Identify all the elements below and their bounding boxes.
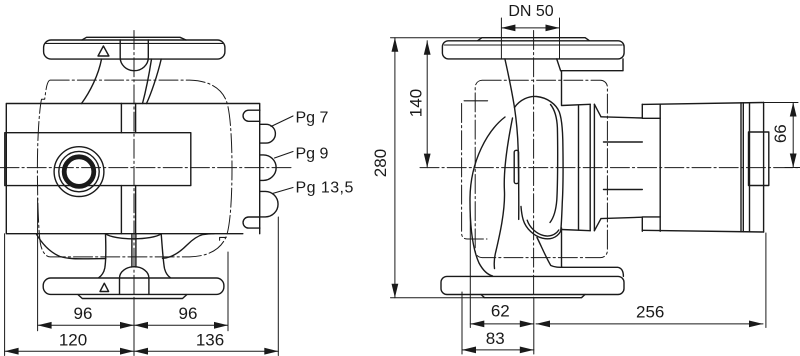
ext 280 bottom: [391, 297, 485, 299]
volute inner edge: [494, 118, 512, 269]
can inner lines: [604, 142, 643, 190]
centerline horizontal right view: [420, 167, 800, 169]
dim 136: [134, 350, 278, 352]
neck curve left: [82, 59, 102, 103]
svg-text:Pg 13,5: Pg 13,5: [296, 180, 354, 197]
ext pipe center bottom: [533, 298, 535, 354]
gland Pg13.5: [260, 191, 278, 217]
impeller dome outline: [515, 96, 564, 238]
dim 66: [792, 103, 794, 168]
svg-text:62: 62: [491, 302, 510, 321]
dim 256: [536, 323, 763, 325]
lug top: [642, 104, 660, 118]
body silhouette lower left: [36, 234, 106, 259]
gland tab top: [243, 110, 260, 121]
dim 96 right: [134, 324, 228, 326]
top flange: [44, 40, 225, 59]
stator top: [642, 103, 763, 105]
dim 140: [426, 41, 428, 168]
cable entry thick ring: [64, 157, 94, 187]
shaft slot: [132, 234, 136, 267]
stator left edge: [659, 104, 661, 231]
stator bottom: [642, 230, 763, 232]
top flange right view: [442, 41, 624, 59]
terminal box: [6, 104, 259, 234]
dim 280: [394, 38, 396, 298]
svg-text:Pg 7: Pg 7: [296, 110, 329, 127]
svg-text:120: 120: [59, 331, 87, 350]
ext 66 bottom tick: [785, 167, 800, 169]
ext line gland right: [277, 217, 279, 356]
pipe bore right edge: [559, 18, 561, 59]
cable entry circle outer: [54, 147, 104, 197]
can top: [601, 117, 642, 118]
stator right edge: [740, 103, 742, 232]
dim 96 left: [38, 324, 134, 326]
svg-text:140: 140: [407, 89, 426, 117]
bottom flange lip right view: [481, 295, 585, 298]
pipe bore left edge: [500, 18, 502, 59]
bottom shelf and corner: [563, 267, 624, 276]
squircle step below box: [220, 237, 227, 240]
bottom flange lip: [78, 295, 187, 299]
clamp ring v3: [593, 104, 595, 230]
chamfer bottom: [594, 219, 601, 231]
ext 66 top: [764, 102, 798, 104]
bevel slant to shelf: [537, 238, 563, 268]
body silhouette lower right: [163, 234, 215, 259]
pipe right edge below shelf: [561, 71, 563, 105]
stator housing hidden outline: [37, 80, 232, 257]
lug bottom: [642, 217, 660, 231]
shelf top: [561, 59, 623, 71]
leader Pg13.5: [273, 188, 294, 194]
chamfer top: [594, 104, 601, 117]
terminal box band: [5, 133, 191, 186]
centerline vertical right view: [533, 31, 535, 299]
svg-text:Pg 9: Pg 9: [296, 146, 329, 163]
terminal box hidden top edge: [464, 100, 488, 102]
pedestal right edge: [161, 234, 170, 278]
hidden stator box: [475, 80, 607, 257]
ext line stator right: [227, 252, 229, 331]
can bottom: [601, 217, 642, 218]
neck left edge / pump body left edge: [505, 59, 519, 220]
flow triangle bottom: [100, 283, 109, 291]
dim 62: [470, 323, 534, 325]
svg-text:256: 256: [636, 302, 664, 321]
dim DN50: [501, 27, 559, 29]
volute outer edge: [470, 117, 505, 276]
end cap inner line: [749, 103, 751, 232]
terminal box hidden left/bottom: [462, 104, 487, 240]
seal housing top edge: [562, 104, 591, 105]
svg-text:DN 50: DN 50: [508, 3, 553, 20]
gland Pg9: [260, 155, 276, 181]
seal housing bottom edge: [562, 230, 591, 231]
band rib right: [135, 104, 137, 234]
clamp ring v2: [589, 104, 591, 230]
dim 83: [462, 349, 534, 351]
flow direction triangle top: [98, 46, 109, 56]
hub box: [749, 132, 769, 186]
bottom flange right view: [441, 276, 624, 294]
centerline horizontal left view: [0, 167, 294, 169]
ext 280 top: [391, 37, 482, 39]
ext line center bottom: [133, 298, 135, 356]
cable entry circle 2: [59, 151, 99, 191]
top flange inner line: [46, 42, 223, 44]
pipe right edge above shelf: [561, 228, 563, 267]
gland tab bottom: [243, 217, 260, 228]
svg-text:96: 96: [179, 304, 198, 323]
ext 256 right: [765, 233, 767, 328]
ext line box left: [4, 234, 6, 356]
end cap right: [763, 103, 765, 233]
end ring line: [742, 103, 744, 232]
svg-text:280: 280: [371, 149, 390, 177]
shaft dome: [120, 267, 149, 295]
ext 62 left: [469, 215, 471, 328]
pedestal saddle: [106, 234, 162, 239]
neck curve right inner: [143, 59, 152, 103]
band rib left: [120, 104, 122, 234]
svg-text:96: 96: [74, 304, 93, 323]
top flange inner line right view: [444, 44, 622, 46]
svg-text:83: 83: [486, 329, 505, 348]
dim 120: [5, 350, 134, 352]
leader Pg7: [271, 116, 293, 127]
ext 83 left: [461, 292, 463, 354]
parting tab: [514, 150, 518, 183]
svg-text:136: 136: [196, 331, 224, 350]
vent tab top: [120, 40, 148, 71]
pedestal left edge: [99, 234, 106, 278]
impeller rim inner arc: [527, 220, 559, 236]
bottom flange: [43, 278, 224, 294]
ext line stator left: [37, 198, 39, 331]
centerline vertical left view: [133, 31, 135, 354]
leader Pg9: [275, 152, 294, 159]
svg-text:66: 66: [771, 124, 790, 143]
impeller dome seam: [550, 105, 558, 223]
top flange cap trapezoid right view: [478, 38, 590, 41]
top flange cap trapezoid: [82, 37, 186, 40]
neck right slant: [557, 59, 561, 71]
seal ring v1: [578, 106, 580, 230]
gland Pg7: [260, 124, 276, 143]
neck curve right outer: [147, 59, 162, 103]
